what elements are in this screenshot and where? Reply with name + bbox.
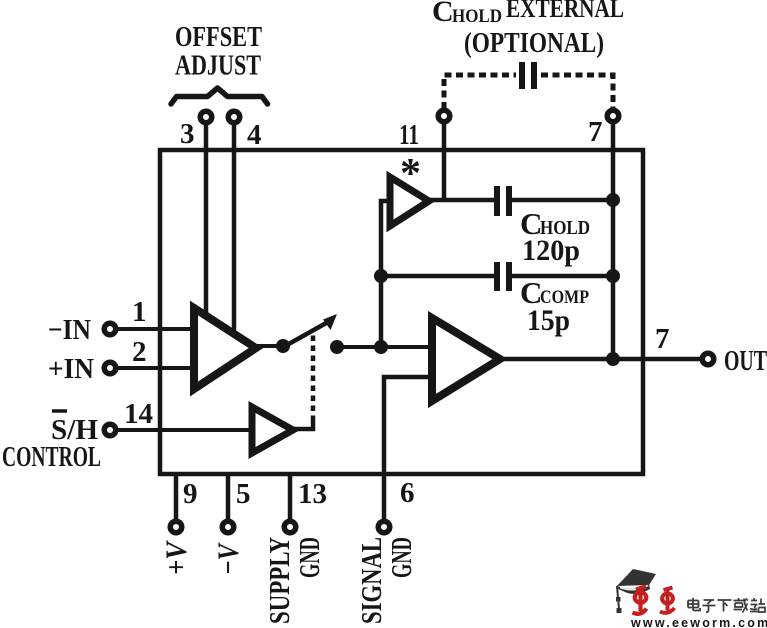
wire pin 11 down to buffer output node	[442, 120, 447, 202]
wire -IN to A1	[112, 327, 196, 331]
output wire	[500, 357, 706, 362]
pin 11 terminal	[438, 110, 450, 122]
brace under OFFSET ADJUST	[171, 88, 268, 104]
svg-text:3: 3	[180, 118, 195, 150]
svg-text:CONTROL: CONTROL	[2, 441, 101, 473]
junction dot C COMP left	[374, 269, 388, 283]
op-amp A2 output amplifier	[432, 318, 500, 401]
S/H driver triangle A4	[252, 407, 293, 453]
svg-text:(OPTIONAL): (OPTIONAL)	[464, 28, 604, 59]
svg-text:GND: GND	[386, 537, 418, 578]
junction dot C COMP right	[606, 269, 620, 283]
op-amp A1 input amplifier	[194, 308, 256, 389]
IC body box	[160, 150, 643, 474]
svg-text:15p: 15p	[527, 304, 570, 337]
eeworm logo red worm character 2	[660, 588, 675, 613]
wire A1 output to switch	[256, 344, 280, 348]
svg-text:HOLD: HOLD	[452, 6, 502, 27]
svg-text:OUT: OUT	[724, 345, 767, 377]
wire +IN to A1	[112, 366, 196, 370]
dashed control line from driver to switch	[293, 421, 313, 429]
eeworm logo chinese character zi	[703, 600, 716, 612]
eeworm logo chinese character zhan	[750, 598, 765, 612]
C HOLD capacitor plates	[494, 186, 500, 216]
+IN terminal	[104, 362, 116, 374]
wire pin 7 top down to output node	[611, 120, 616, 360]
svg-text:GND: GND	[294, 537, 326, 578]
wire pin 3 to op-amp A1	[204, 120, 209, 315]
svg-text:+V: +V	[160, 539, 193, 575]
S/H terminal	[104, 424, 116, 436]
eeworm logo chinese character xia	[718, 600, 732, 612]
pin 4 terminal	[228, 111, 240, 123]
svg-text:+IN: +IN	[48, 353, 94, 385]
svg-text:5: 5	[236, 478, 251, 510]
svg-text:120p: 120p	[522, 234, 580, 267]
svg-text:EXTERNAL: EXTERNAL	[506, 0, 624, 23]
svg-text:www.eeworm.com: www.eeworm.com	[630, 616, 767, 628]
wire switch to hold node	[337, 345, 381, 349]
switch contact dot left	[276, 339, 290, 353]
svg-text:−V: −V	[212, 542, 245, 575]
eeworm logo red worm character 1	[633, 587, 647, 614]
wire pin 9	[174, 476, 179, 521]
svg-text:−IN: −IN	[48, 314, 91, 346]
eeworm logo graduation cap board	[617, 569, 656, 586]
switch arm with arrowhead	[287, 322, 328, 345]
wire S/H control to driver A4	[112, 428, 254, 432]
wire C HOLD right plate to pin7 line	[512, 198, 613, 203]
C COMP capacitor plates	[494, 262, 500, 291]
svg-text:SUPPLY: SUPPLY	[264, 537, 296, 624]
eeworm logo tassel	[617, 586, 619, 609]
junction dot C HOLD right	[606, 193, 620, 207]
wire pin 13	[288, 476, 293, 521]
svg-text:C: C	[432, 0, 454, 28]
svg-text:SIGNAL: SIGNAL	[356, 537, 388, 624]
wire buffer input down to hold node	[381, 201, 390, 347]
svg-text:1: 1	[132, 296, 147, 328]
svg-text:9: 9	[183, 478, 198, 510]
eeworm logo chinese character dian	[688, 598, 700, 611]
wire buffer output to C HOLD	[429, 198, 494, 203]
svg-text:ADJUST: ADJUST	[175, 51, 261, 82]
svg-text:11: 11	[399, 119, 419, 151]
wire pin 5	[226, 476, 231, 521]
svg-text:7: 7	[655, 323, 670, 355]
svg-text:7: 7	[588, 116, 603, 148]
junction dot output	[606, 352, 620, 366]
pin 6 terminal	[378, 521, 390, 533]
pin 5 terminal	[222, 521, 234, 533]
OUT terminal	[702, 353, 714, 365]
junction dot hold node	[374, 340, 388, 354]
svg-text:14: 14	[124, 398, 153, 430]
svg-text:4: 4	[247, 119, 262, 151]
pin 9 terminal	[170, 521, 182, 533]
svg-text:OFFSET: OFFSET	[175, 22, 262, 53]
wire hold node to A2 upper input	[381, 345, 434, 349]
pin 7 top terminal	[607, 110, 619, 122]
wire C COMP right plate to pin7 line	[512, 274, 613, 279]
eeworm logo chinese character zai	[734, 598, 749, 613]
switch contact dot right	[330, 340, 344, 354]
dashed wire left of external cap	[444, 75, 516, 109]
dashed wire right of external cap	[541, 75, 613, 109]
svg-text:2: 2	[132, 336, 147, 368]
-IN terminal	[104, 323, 116, 335]
pin 13 terminal	[284, 521, 296, 533]
eeworm logo cap band	[617, 584, 650, 594]
wire A2 lower input down to pin 6	[384, 377, 434, 520]
svg-text:6: 6	[400, 477, 415, 509]
pin 3 terminal	[200, 111, 212, 123]
external C HOLD capacitor	[519, 62, 525, 89]
buffer A3	[390, 177, 429, 226]
wire pin 4 to op-amp A1	[232, 120, 237, 330]
svg-text:13: 13	[298, 478, 327, 510]
wire hold node to C COMP	[381, 274, 494, 279]
